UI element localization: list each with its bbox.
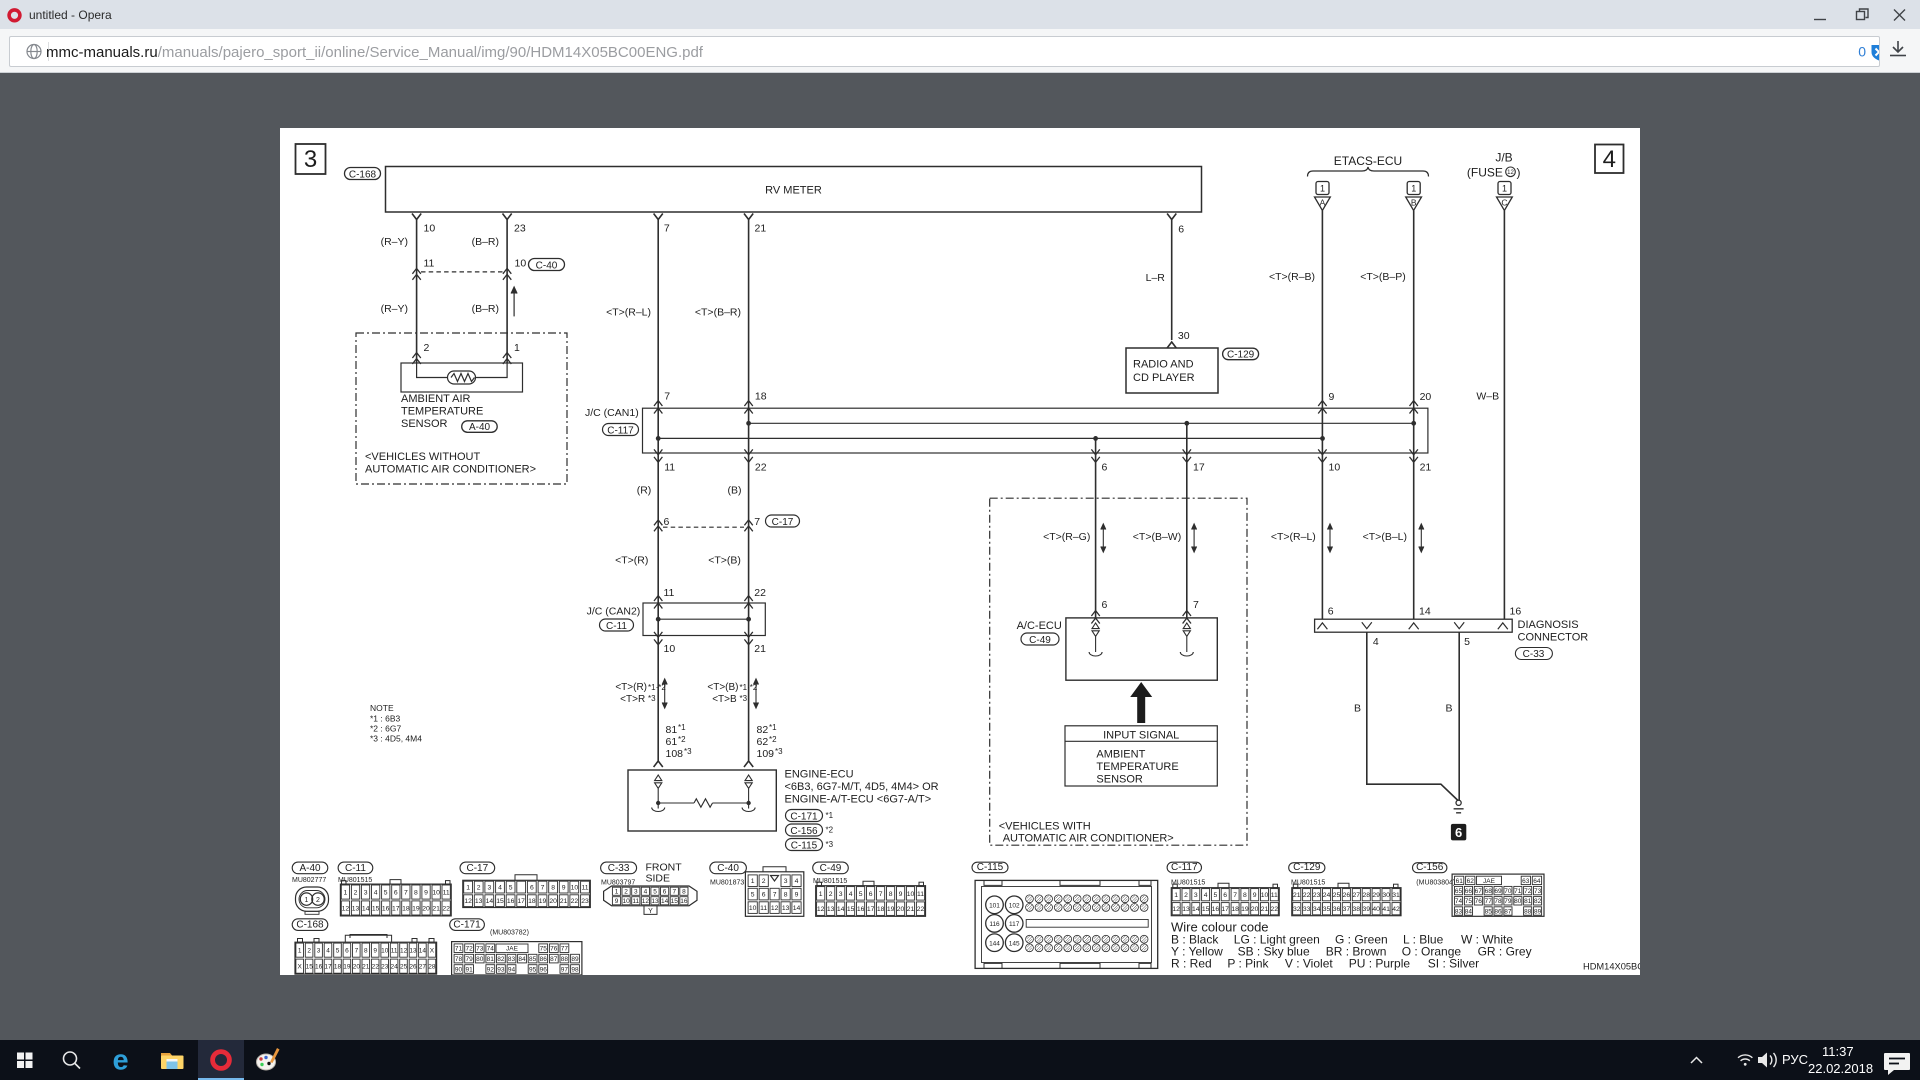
svg-text:36: 36 (1333, 906, 1341, 913)
svg-text:14: 14 (419, 948, 427, 955)
connector label C-117 left (603, 424, 639, 436)
svg-text:12: 12 (642, 898, 650, 905)
svg-text:90: 90 (455, 966, 463, 973)
svg-text:L–R: L–R (1146, 272, 1166, 284)
svg-text:85: 85 (529, 956, 537, 963)
svg-text:75: 75 (540, 946, 548, 953)
ground id 6 black tag (1451, 824, 1466, 841)
connector label C-33 oval (1515, 648, 1552, 660)
svg-text:*2: *2 (769, 735, 777, 744)
svg-text:J/B: J/B (1495, 151, 1512, 165)
svg-text:C-156: C-156 (790, 826, 818, 837)
svg-text:3: 3 (304, 146, 317, 173)
J/C (CAN2) junction box C-11 (643, 603, 765, 636)
svg-text:6: 6 (663, 889, 667, 896)
svg-text:67: 67 (1475, 888, 1483, 895)
svg-text:(MU803782): (MU803782) (490, 930, 529, 937)
svg-text:89: 89 (571, 956, 579, 963)
svg-text:11: 11 (632, 898, 639, 905)
svg-text:91: 91 (465, 966, 473, 973)
svg-text:41: 41 (1382, 906, 1390, 913)
connector A-40 pinout (292, 862, 328, 874)
svg-text:21: 21 (1420, 462, 1432, 474)
svg-text:11: 11 (443, 890, 450, 897)
svg-text:16: 16 (315, 964, 323, 971)
svg-text:15: 15 (306, 964, 314, 971)
svg-text:*3: *3 (684, 747, 692, 756)
svg-text:13: 13 (827, 906, 835, 913)
svg-text:11: 11 (1271, 892, 1278, 899)
svg-text:4: 4 (849, 891, 853, 898)
svg-text:24: 24 (1323, 892, 1331, 899)
diagnosis chevrons (1317, 622, 1507, 629)
svg-text:84: 84 (518, 956, 526, 963)
svg-text:68: 68 (1485, 888, 1493, 895)
svg-text:<T>(R–B): <T>(R–B) (1269, 271, 1315, 283)
connector C-33 pinout (601, 862, 637, 874)
svg-text:94: 94 (508, 966, 516, 973)
folder (161, 1053, 184, 1069)
start button (17, 1053, 33, 1069)
wire w4 top <T>(B-R) pin21 (744, 214, 753, 454)
svg-text:96: 96 (540, 966, 548, 973)
svg-text:21: 21 (560, 898, 568, 905)
svg-text:17: 17 (1193, 462, 1205, 474)
svg-text:RADIO AND: RADIO AND (1133, 359, 1194, 371)
svg-text:11: 11 (424, 258, 435, 270)
svg-text:31: 31 (1392, 892, 1400, 899)
svg-text:9: 9 (899, 891, 903, 898)
svg-text:1: 1 (514, 342, 520, 354)
svg-text:*1·*2: *1·*2 (740, 683, 758, 692)
svg-text:12: 12 (771, 905, 779, 912)
svg-text:16: 16 (382, 905, 390, 912)
svg-text:1: 1 (298, 948, 302, 955)
svg-text:18: 18 (334, 964, 342, 971)
svg-text:78: 78 (455, 956, 463, 963)
svg-text:AMBIENT: AMBIENT (1096, 749, 1145, 761)
svg-text:12: 12 (817, 906, 825, 913)
svg-text:22: 22 (755, 462, 767, 474)
svg-text:3: 3 (317, 948, 321, 955)
svg-text:16: 16 (680, 898, 688, 905)
svg-text:7: 7 (1193, 599, 1199, 611)
svg-text:<T>(R): <T>(R) (615, 682, 647, 693)
svg-text:CD PLAYER: CD PLAYER (1133, 372, 1195, 384)
svg-text:15: 15 (496, 898, 504, 905)
bidirectional arrow w9 (1419, 524, 1424, 552)
svg-text:<T>(B–W): <T>(B–W) (1133, 531, 1181, 543)
section marker 3 (296, 144, 326, 174)
address/toolbar (0, 29, 1920, 73)
connector C-129 pinout (1289, 863, 1325, 873)
svg-text:MU801515: MU801515 (813, 878, 847, 885)
svg-text:23: 23 (1313, 892, 1321, 899)
connector label C-49 left (1021, 633, 1059, 645)
svg-text:*3: *3 (826, 840, 834, 849)
svg-text:JAE: JAE (1483, 878, 1496, 885)
svg-text:71: 71 (1514, 888, 1522, 895)
svg-text:76: 76 (550, 946, 558, 953)
ETACS terminal B (1406, 182, 1422, 424)
svg-text:87: 87 (550, 956, 558, 963)
svg-text:<T>(R): <T>(R) (615, 554, 648, 566)
svg-text:5: 5 (653, 889, 657, 896)
svg-text:(B–R): (B–R) (472, 236, 499, 248)
svg-text:*2: *2 (826, 826, 834, 835)
svg-text:2: 2 (354, 890, 358, 897)
svg-text:INPUT SIGNAL: INPUT SIGNAL (1103, 730, 1179, 742)
svg-text:19: 19 (539, 898, 547, 905)
svg-text:20: 20 (353, 964, 361, 971)
svg-text:2: 2 (1184, 892, 1188, 899)
svg-text:16: 16 (507, 898, 515, 905)
svg-text:78: 78 (1494, 898, 1502, 905)
svg-text:3: 3 (784, 878, 788, 885)
svg-text:AMBIENT AIR: AMBIENT AIR (401, 393, 471, 405)
svg-text:5: 5 (336, 948, 340, 955)
svg-text:MU801873: MU801873 (710, 880, 744, 887)
svg-text:9: 9 (373, 948, 377, 955)
svg-text:PU : Purple: PU : Purple (1349, 957, 1411, 971)
svg-text:(FUSE: (FUSE (1467, 166, 1503, 180)
svg-text:*3: *3 (648, 694, 656, 703)
svg-text:<VEHICLES WITH: <VEHICLES WITH (999, 821, 1091, 833)
svg-text:17: 17 (517, 898, 525, 905)
svg-text:40: 40 (1372, 906, 1380, 913)
svg-text:17: 17 (324, 964, 332, 971)
svg-text:*3: *3 (740, 694, 748, 703)
svg-text:GR : Grey: GR : Grey (1478, 945, 1532, 959)
svg-text:2: 2 (316, 897, 320, 904)
svg-text:*3 : 4D5, 4M4: *3 : 4D5, 4M4 (370, 734, 422, 744)
connector C-40 pinout (710, 862, 747, 874)
svg-text:*2 : 6G7: *2 : 6G7 (370, 724, 401, 734)
svg-text:9: 9 (1329, 391, 1335, 403)
svg-text:62: 62 (757, 736, 769, 748)
section marker 4 (1595, 145, 1624, 174)
svg-text:108: 108 (666, 748, 684, 760)
svg-text:10: 10 (571, 885, 579, 892)
svg-text:SENSOR: SENSOR (1096, 774, 1143, 786)
svg-text:1: 1 (1320, 184, 1325, 194)
connector label C-17 (766, 515, 800, 527)
svg-text:10: 10 (749, 905, 757, 912)
svg-text:11: 11 (391, 948, 398, 955)
svg-text:61: 61 (666, 736, 678, 748)
svg-text:(B–R): (B–R) (472, 303, 499, 315)
svg-text:73: 73 (476, 946, 484, 953)
svg-text:72: 72 (1524, 888, 1532, 895)
svg-text:12: 12 (464, 898, 472, 905)
svg-text:5: 5 (1464, 636, 1470, 648)
svg-text:64: 64 (1533, 878, 1541, 885)
svg-text:<T>(B): <T>(B) (707, 682, 738, 693)
svg-text:5: 5 (509, 885, 513, 892)
svg-text:23: 23 (581, 898, 589, 905)
svg-text:(R–Y): (R–Y) (381, 236, 408, 248)
svg-text:23: 23 (514, 223, 526, 235)
svg-text:10: 10 (424, 223, 436, 235)
svg-text:CONNECTOR: CONNECTOR (1518, 632, 1589, 644)
svg-text:MU801515: MU801515 (1291, 880, 1325, 887)
svg-text:4: 4 (795, 878, 799, 885)
svg-text:C-17: C-17 (772, 517, 794, 528)
svg-text:4: 4 (644, 889, 648, 896)
wire w9 low <T>(B-L) (1410, 423, 1418, 619)
svg-text:2: 2 (829, 891, 833, 898)
svg-text:3: 3 (364, 890, 368, 897)
input signal box (1065, 726, 1217, 786)
svg-text:A/C-ECU: A/C-ECU (1017, 620, 1062, 632)
svg-text:B: B (1445, 703, 1452, 715)
dashed link w1-w2 at C-40 (421, 271, 503, 273)
svg-text:8: 8 (414, 890, 418, 897)
svg-text:P : Pink: P : Pink (1227, 957, 1269, 971)
svg-text:11: 11 (581, 885, 588, 892)
svg-text:12: 12 (342, 905, 350, 912)
svg-text:4: 4 (374, 890, 378, 897)
svg-text:14: 14 (793, 905, 801, 912)
svg-text:63: 63 (1522, 878, 1530, 885)
svg-text:<T>(R–G): <T>(R–G) (1043, 531, 1090, 543)
svg-text:DIAGNOSIS: DIAGNOSIS (1518, 619, 1579, 631)
svg-text:9: 9 (424, 890, 428, 897)
svg-text:97: 97 (561, 966, 569, 973)
connector C-117 pinout (1167, 862, 1201, 873)
svg-text:10: 10 (1329, 462, 1341, 474)
ground wires B (1367, 632, 1459, 800)
svg-text:86: 86 (1494, 908, 1502, 915)
svg-text:10: 10 (622, 898, 630, 905)
svg-text:14: 14 (837, 906, 845, 913)
J/B fuse terminal C (1497, 182, 1513, 620)
svg-text:2: 2 (624, 889, 628, 896)
svg-text:SENSOR: SENSOR (401, 418, 448, 430)
browser title bar (0, 0, 1920, 29)
svg-text:37: 37 (1343, 906, 1351, 913)
svg-text:7: 7 (664, 391, 670, 403)
wire w7 <T>(B-W) (1183, 423, 1191, 623)
svg-text:33: 33 (1303, 906, 1311, 913)
svg-text:20: 20 (1251, 906, 1259, 913)
svg-text:10: 10 (1261, 892, 1269, 899)
svg-text:75: 75 (1465, 898, 1473, 905)
svg-text:TEMPERATURE: TEMPERATURE (401, 406, 483, 418)
svg-text:B: B (1354, 703, 1361, 715)
svg-text:C: C (1501, 198, 1507, 208)
svg-text:92: 92 (487, 966, 495, 973)
svg-text:42: 42 (1392, 906, 1400, 913)
svg-text:15: 15 (671, 898, 679, 905)
svg-text:22: 22 (1303, 892, 1311, 899)
svg-text:13: 13 (475, 898, 483, 905)
svg-text:J/C (CAN1): J/C (CAN1) (585, 407, 639, 419)
svg-text:80: 80 (1514, 898, 1522, 905)
connector C-171 pinout (450, 919, 485, 931)
wire w3 mid (R) (654, 449, 662, 635)
svg-text:2: 2 (762, 878, 766, 885)
svg-text:*1·*2: *1·*2 (648, 683, 666, 692)
svg-text:11: 11 (664, 462, 675, 474)
fuse 12 circle (1506, 167, 1516, 177)
svg-text:4: 4 (326, 948, 330, 955)
ambient air temperature sensor A-40 (401, 363, 523, 392)
svg-text:C-40: C-40 (717, 863, 739, 874)
svg-text:C-11: C-11 (606, 621, 627, 632)
svg-text:9: 9 (795, 892, 799, 899)
svg-text:6: 6 (1328, 606, 1334, 618)
svg-text:30: 30 (1382, 892, 1390, 899)
active app highlight (opera) (198, 1040, 244, 1080)
connector label A-40 (462, 421, 498, 433)
svg-text:1: 1 (751, 878, 755, 885)
svg-text:14: 14 (486, 898, 494, 905)
svg-text:89: 89 (1534, 908, 1542, 915)
svg-text:9: 9 (615, 898, 619, 905)
connector label C-11 (600, 619, 634, 631)
svg-text:21: 21 (1293, 892, 1301, 899)
svg-text:7: 7 (773, 892, 777, 899)
svg-text:6: 6 (869, 891, 873, 898)
svg-text:*1: *1 (678, 723, 686, 732)
a/c-ecu internal contacts (1089, 623, 1193, 656)
svg-text:21: 21 (755, 223, 767, 235)
svg-text:ENGINE-ECU: ENGINE-ECU (785, 769, 854, 781)
svg-text:65: 65 (1455, 888, 1463, 895)
svg-text:79: 79 (465, 956, 473, 963)
svg-text:3: 3 (1194, 892, 1198, 899)
radio and cd player U2 (1126, 348, 1218, 393)
svg-text:C-156: C-156 (1416, 862, 1444, 873)
svg-text:4: 4 (1603, 146, 1616, 173)
svg-text:61: 61 (1456, 878, 1464, 885)
svg-text:16: 16 (1212, 906, 1220, 913)
svg-text:6: 6 (530, 885, 534, 892)
J/C (CAN1) junction box C-117 (643, 408, 1428, 453)
bidirectional arrow w7 (1192, 524, 1197, 552)
svg-text:74: 74 (1455, 898, 1463, 905)
svg-text:10: 10 (381, 948, 389, 955)
svg-text:C-171: C-171 (453, 920, 481, 931)
svg-text:79: 79 (1504, 898, 1512, 905)
svg-text:11: 11 (664, 587, 675, 599)
svg-text:6: 6 (394, 890, 398, 897)
svg-text:22: 22 (372, 964, 380, 971)
svg-text:98: 98 (571, 966, 579, 973)
wire w4 mid (B) (744, 449, 752, 635)
bidirectional arrow w8 (1328, 524, 1333, 552)
svg-text:22: 22 (1271, 906, 1279, 913)
wire w3 low to engine ecu (654, 632, 663, 767)
dashed link w3-w4 at C-17 (663, 526, 744, 528)
svg-text:27: 27 (419, 964, 427, 971)
svg-text:AUTOMATIC AIR CONDITIONER>: AUTOMATIC AIR CONDITIONER> (365, 464, 536, 476)
svg-text:6: 6 (1178, 224, 1184, 236)
svg-text:4: 4 (1204, 892, 1208, 899)
svg-text:AUTOMATIC AIR CONDITIONER>: AUTOMATIC AIR CONDITIONER> (1003, 833, 1174, 845)
svg-text:5: 5 (1214, 892, 1218, 899)
svg-text:26: 26 (1343, 892, 1351, 899)
svg-text:3: 3 (839, 891, 843, 898)
svg-text:C-49: C-49 (820, 863, 842, 874)
svg-text:C-33: C-33 (1523, 649, 1545, 660)
svg-text:22: 22 (571, 898, 579, 905)
svg-text:18: 18 (755, 391, 767, 403)
svg-text:10: 10 (432, 890, 440, 897)
svg-text:14: 14 (362, 905, 370, 912)
svg-text:21: 21 (1261, 906, 1269, 913)
svg-text:MU801515: MU801515 (1171, 880, 1205, 887)
svg-text:82: 82 (497, 956, 505, 963)
svg-text:13: 13 (651, 898, 659, 905)
svg-text:81: 81 (1524, 898, 1532, 905)
svg-text:V : Violet: V : Violet (1285, 957, 1333, 971)
svg-text:20: 20 (422, 905, 430, 912)
svg-text:C-40: C-40 (536, 260, 558, 271)
svg-text:23: 23 (381, 964, 389, 971)
svg-text:*1: *1 (769, 723, 777, 732)
svg-text:2: 2 (307, 948, 311, 955)
svg-text:22: 22 (754, 587, 766, 599)
svg-text:32: 32 (1293, 906, 1301, 913)
connector C-17 pinout (460, 862, 495, 874)
svg-text:8: 8 (1243, 892, 1247, 899)
svg-text:21: 21 (754, 643, 766, 655)
connector label C-129 top (1223, 348, 1259, 360)
CAN2 rail (658, 618, 748, 620)
svg-text:C-117: C-117 (1171, 862, 1198, 873)
svg-text:<6B3, 6G7-M/T, 4D5, 4M4> OR: <6B3, 6G7-M/T, 4D5, 4M4> OR (785, 781, 939, 793)
svg-text:A: A (1320, 198, 1326, 208)
vehicles-without dash-dot frame (356, 333, 567, 484)
wire w3 top <T>(R-L) pin7 (654, 214, 663, 454)
svg-text:8: 8 (682, 889, 686, 896)
svg-text:72: 72 (465, 946, 473, 953)
svg-text:1: 1 (305, 897, 309, 904)
svg-text:MU802777: MU802777 (292, 877, 326, 884)
svg-text:*3: *3 (775, 747, 783, 756)
svg-text:ETACS-ECU: ETACS-ECU (1334, 154, 1402, 168)
svg-text:): ) (1517, 166, 1521, 180)
svg-text:8: 8 (889, 891, 893, 898)
svg-text:(MU803804): (MU803804) (1416, 880, 1455, 887)
wire w8 low <T>(R-L) (1318, 438, 1326, 619)
svg-text:83: 83 (508, 956, 516, 963)
svg-text:102: 102 (1009, 903, 1020, 910)
svg-text:19: 19 (412, 905, 420, 912)
svg-text:21: 21 (907, 906, 915, 913)
svg-text:7: 7 (672, 889, 676, 896)
svg-text:84: 84 (1465, 908, 1473, 915)
svg-text:14: 14 (661, 898, 669, 905)
connector label C-168 (345, 168, 381, 180)
svg-text:88: 88 (561, 956, 569, 963)
svg-text:13: 13 (352, 905, 360, 912)
svg-text:C-49: C-49 (1029, 635, 1051, 646)
svg-text:4: 4 (1373, 636, 1379, 648)
svg-text:5: 5 (859, 891, 863, 898)
svg-text:3: 3 (488, 885, 492, 892)
svg-text:*1: *1 (826, 811, 834, 820)
svg-text:5: 5 (751, 892, 755, 899)
svg-text:C-17: C-17 (467, 863, 489, 874)
svg-text:6: 6 (1223, 892, 1227, 899)
svg-text:7: 7 (404, 890, 408, 897)
svg-text:145: 145 (1009, 941, 1020, 948)
svg-text:35: 35 (1323, 906, 1331, 913)
svg-text:7: 7 (754, 516, 760, 528)
